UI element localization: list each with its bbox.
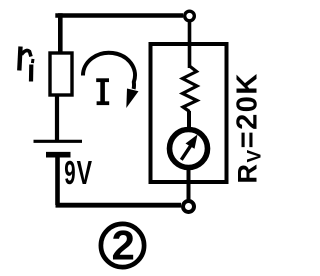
svg-text:V: V bbox=[77, 155, 92, 192]
svg-text:2: 2 bbox=[112, 222, 135, 269]
svg-text:RV=20K: RV=20K bbox=[232, 72, 266, 183]
svg-text:9: 9 bbox=[64, 154, 75, 191]
